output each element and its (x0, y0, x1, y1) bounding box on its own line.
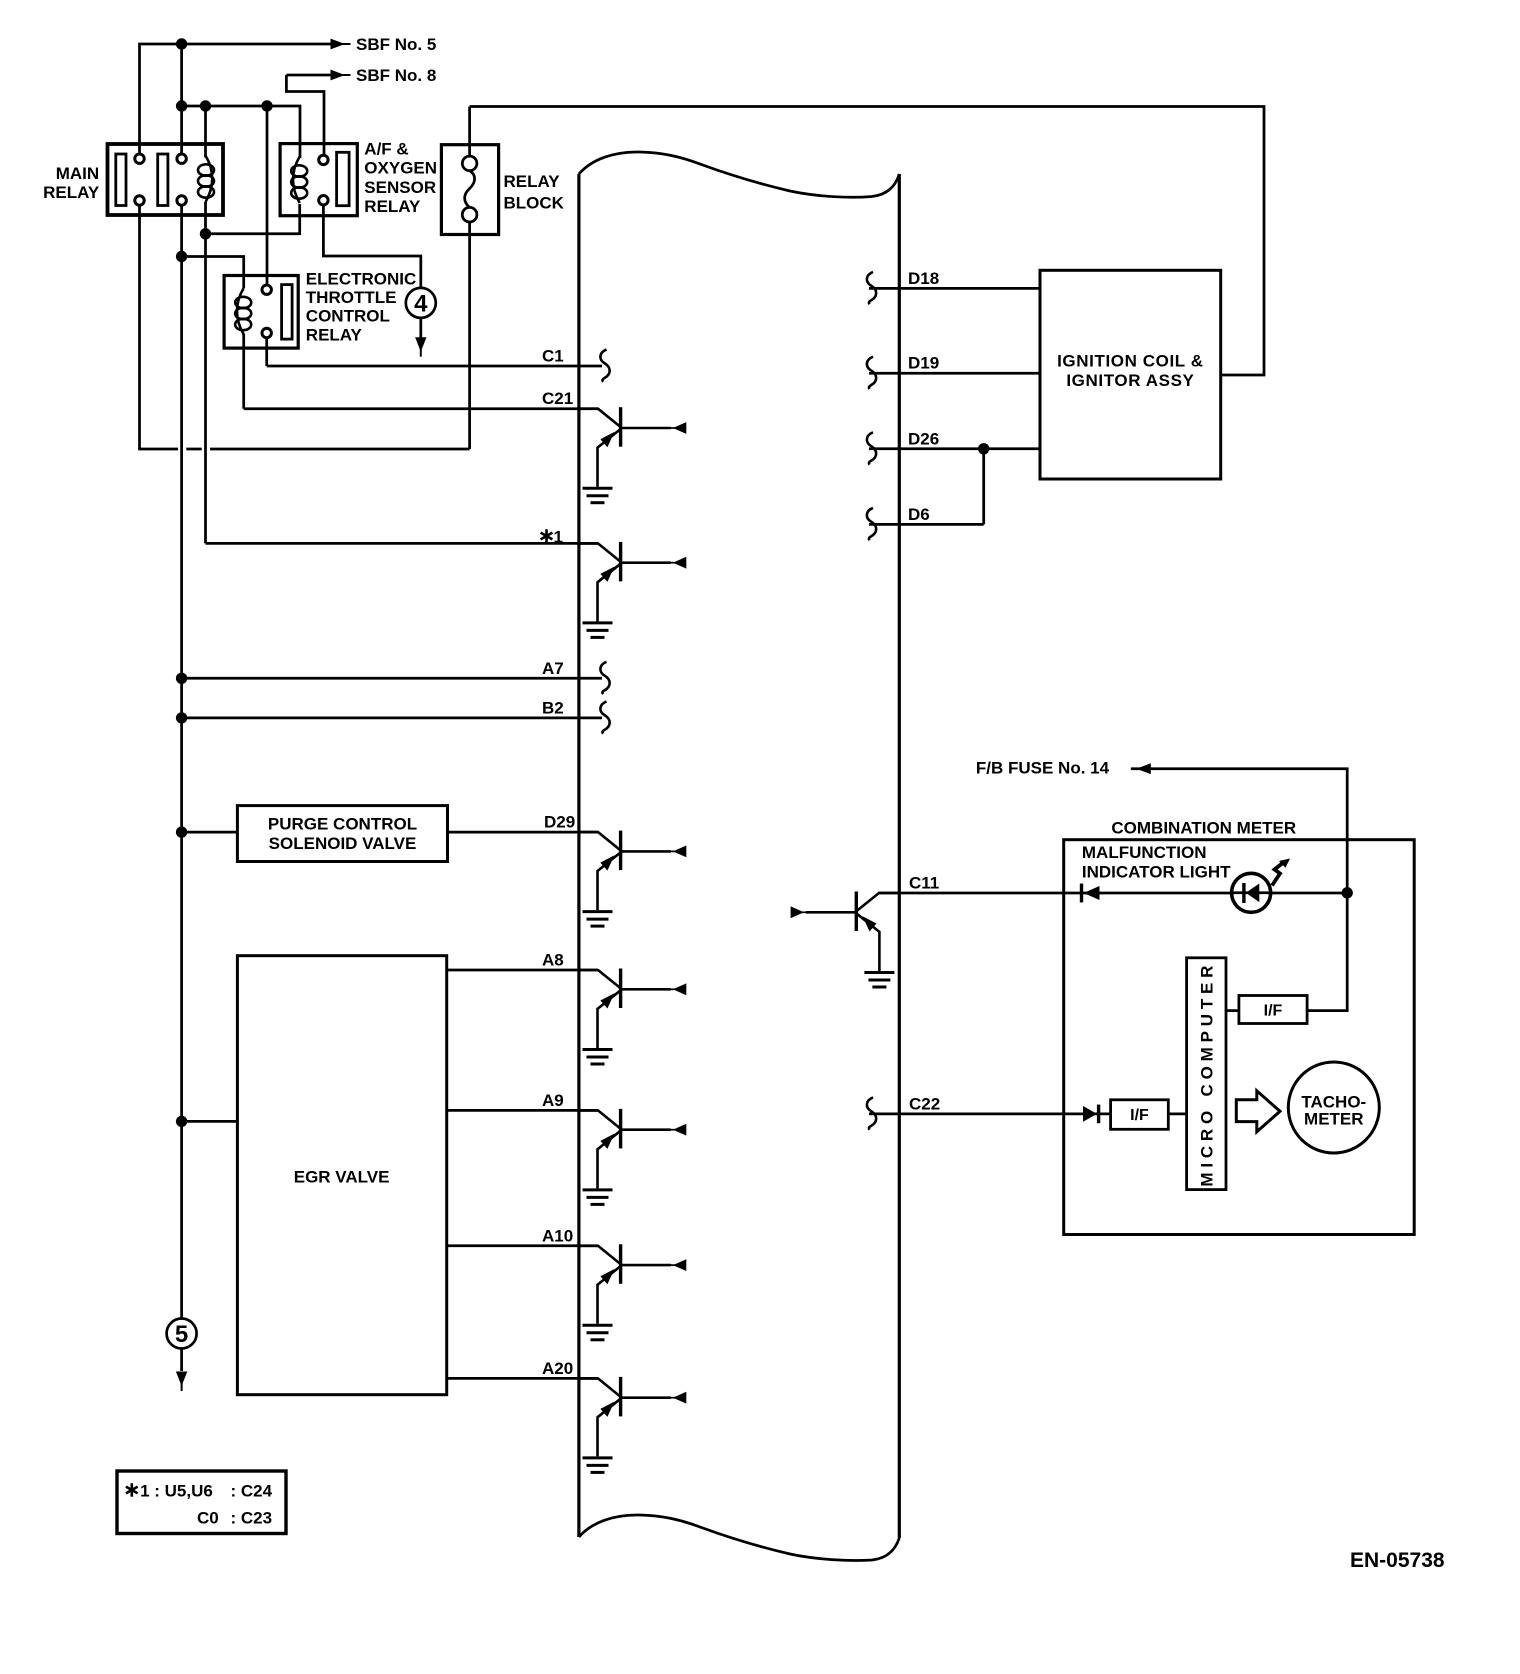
svg-text:INDICATOR LIGHT: INDICATOR LIGHT (1082, 863, 1231, 882)
svg-text:PURGE CONTROL: PURGE CONTROL (268, 814, 417, 833)
svg-text:1 : U5,U6: 1 : U5,U6 (140, 1482, 213, 1501)
svg-text:D18: D18 (908, 269, 939, 288)
svg-text:B2: B2 (542, 698, 564, 717)
svg-text:D26: D26 (908, 429, 939, 448)
svg-text:: C24: : C24 (231, 1482, 273, 1501)
svg-text:5: 5 (175, 1321, 188, 1348)
svg-text:MAIN: MAIN (56, 164, 99, 183)
svg-text:METER: METER (1304, 1110, 1364, 1129)
svg-text:IGNITION COIL &: IGNITION COIL & (1057, 352, 1204, 371)
svg-text:SENSOR: SENSOR (364, 178, 436, 197)
svg-text:SOLENOID VALVE: SOLENOID VALVE (269, 834, 417, 853)
svg-text:F/B FUSE No. 14: F/B FUSE No. 14 (976, 759, 1110, 778)
svg-text:C21: C21 (542, 389, 573, 408)
svg-text:A9: A9 (542, 1091, 564, 1110)
svg-text:BLOCK: BLOCK (504, 194, 565, 213)
svg-text:A20: A20 (542, 1359, 573, 1378)
svg-text:RELAY: RELAY (364, 197, 421, 216)
svg-text:: C23: : C23 (231, 1509, 273, 1528)
svg-text:COMBINATION METER: COMBINATION METER (1111, 818, 1296, 837)
svg-text:EN-05738: EN-05738 (1350, 1549, 1445, 1572)
svg-text:IGNITOR ASSY: IGNITOR ASSY (1066, 371, 1194, 390)
svg-text:A7: A7 (542, 659, 564, 678)
svg-text:RELAY: RELAY (504, 172, 561, 191)
svg-text:SBF No. 5: SBF No. 5 (356, 35, 436, 54)
svg-text:RELAY: RELAY (306, 326, 363, 345)
svg-text:D19: D19 (908, 354, 939, 373)
svg-text:A8: A8 (542, 951, 564, 970)
svg-text:D6: D6 (908, 505, 930, 524)
svg-text:THROTTLE: THROTTLE (306, 288, 397, 307)
svg-text:SBF No. 8: SBF No. 8 (356, 66, 436, 85)
svg-text:RELAY: RELAY (43, 183, 100, 202)
svg-text:4: 4 (414, 290, 428, 317)
svg-text:OXYGEN: OXYGEN (364, 159, 437, 178)
svg-text:D29: D29 (544, 813, 575, 832)
svg-text:MALFUNCTION: MALFUNCTION (1082, 843, 1207, 862)
svg-text:C22: C22 (909, 1094, 940, 1113)
svg-text:CONTROL: CONTROL (306, 307, 390, 326)
svg-text:C0: C0 (197, 1509, 219, 1528)
svg-text:EGR VALVE: EGR VALVE (294, 1167, 390, 1186)
svg-text:I/F: I/F (1130, 1107, 1149, 1124)
svg-text:A10: A10 (542, 1226, 573, 1245)
svg-text:1: 1 (554, 528, 563, 547)
svg-text:C1: C1 (542, 347, 564, 366)
svg-text:I/F: I/F (1264, 1003, 1283, 1020)
svg-text:MICRO COMPUTER: MICRO COMPUTER (1198, 961, 1217, 1187)
svg-text:ELECTRONIC: ELECTRONIC (306, 270, 417, 289)
svg-text:C11: C11 (909, 874, 939, 893)
svg-text:A/F &: A/F & (364, 139, 408, 158)
